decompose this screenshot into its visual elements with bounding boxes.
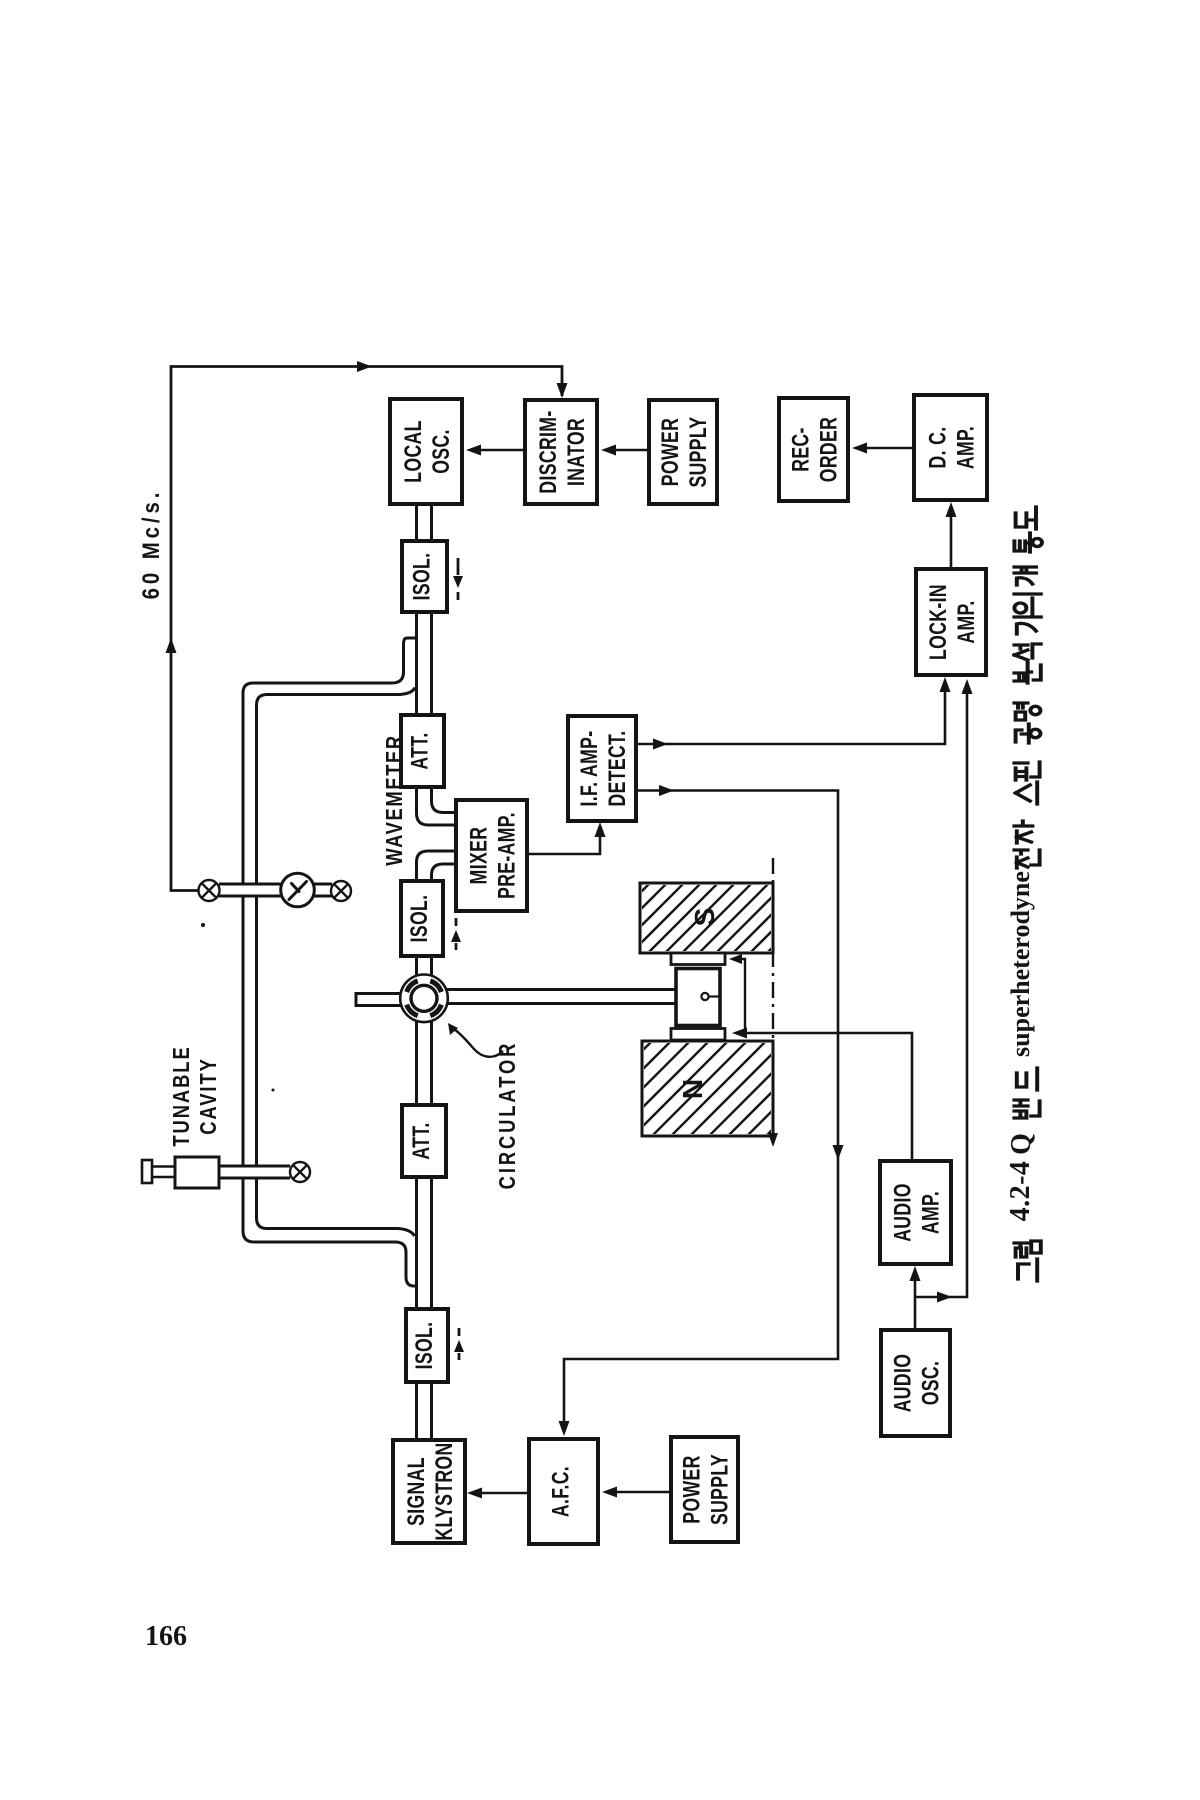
svg-text:MIXER: MIXER [465,827,493,885]
svg-text:D. C.: D. C. [924,427,952,469]
svg-text:CAVITY: CAVITY [196,1057,221,1135]
component: magnet pole S (hatched block) [640,883,773,953]
svg-text:4.2-4: 4.2-4 [1005,1161,1036,1222]
svg-text:PRE-AMP.: PRE-AMP. [493,812,521,899]
wire: AUDIO AMP. to modulation coils [736,1033,912,1160]
svg-text:ATT.: ATT. [407,1122,435,1159]
svg-text:ATT.: ATT. [406,732,434,769]
svg-text:AMP.: AMP. [952,600,980,643]
svg-text:DETECT.: DETECT. [603,731,631,807]
svg-text:A.F.C.: A.F.C. [547,1466,575,1517]
wire: static field axis (dash-dot) with arrow [772,858,774,1142]
wire: AUDIO OSC. to AUDIO AMP. [914,1272,917,1329]
wire: I.F. output to A.F.C. [564,791,838,1433]
svg-text:KLYSTRON: KLYSTRON [430,1442,458,1540]
wire: circulator left stub port [356,992,401,995]
detector: crystal detector (tunable cavity) [290,1162,310,1182]
node: wavemeter cross arm (white break over vertical guide) [219,885,282,895]
wire: waveguide ATT to MIXER PRE-AMP [417,786,458,825]
block: RECORDER [779,398,848,501]
component: resonant cavity with sample [676,969,720,1026]
svg-text:TUNABLE: TUNABLE [169,1045,194,1146]
wire: AUDIO OSC. reference to LOCK-IN AMP. [915,683,967,1297]
wire: I.F. output to LOCK-IN AMP. [637,681,945,744]
svg-text:AUDIO: AUDIO [889,1183,917,1242]
node: tunable cavity arm (white break over vertical guide) [219,1167,290,1177]
svg-text:60 Mc/s.: 60 Mc/s. [137,489,164,600]
wire: LOCK-IN AMP. to D.C. AMP. [950,506,953,568]
component: magnet pole cap (S side) [671,953,725,965]
svg-text:OSC.: OSC. [427,429,455,474]
svg-text:POWER: POWER [656,418,684,486]
wire: waveguide ISOL to SIGNAL KLYSTRON [415,1381,418,1441]
block: MIXER PRE-AMP. [456,800,527,911]
block: LOCK-IN AMP. [916,569,986,675]
svg-text:DISCRIM-: DISCRIM- [534,410,562,493]
svg-text:ISOL.: ISOL. [408,553,436,601]
svg-text:REC-: REC- [787,427,815,472]
svg-text:166: 166 [145,1621,187,1652]
node: isolator direction arrow (klystron arm) [458,1328,461,1336]
wire: waveguide ISOL(mixer) to MIXER PRE-AMP [417,851,458,882]
component: magnet pole cap (N side) [671,1029,725,1041]
svg-text:LOCK-IN: LOCK-IN [924,584,952,660]
svg-text:S: S [689,908,720,927]
svg-text:I.F. AMP-: I.F. AMP- [575,730,603,806]
node: isolator direction arrow (local osc arm) [457,558,460,575]
block: SIGNAL KLYSTRON [393,1440,465,1543]
wire: 60 Mc/s reference (detector to discriminator) [171,367,562,891]
wire: DISCRIMINATOR to LOCAL OSC. [470,449,524,452]
svg-text:Q: Q [1006,1133,1037,1155]
svg-text:CIRCULATOR: CIRCULATOR [495,1041,520,1190]
svg-text:AMP.: AMP. [917,1191,945,1234]
block: ISOL. (mixer arm) [401,881,443,956]
svg-text:SIGNAL: SIGNAL [402,1457,430,1526]
block: AUDIO OSC. [881,1330,950,1436]
component: magnet pole N (hatched block) [642,1041,773,1136]
svg-text:POWER: POWER [678,1455,706,1523]
wire: MIXER PRE-AMP. to I.F. AMP-DETECT. [528,826,600,854]
node: isolator direction arrow (mixer arm) [455,918,458,926]
svg-text:LOCAL: LOCAL [399,420,427,483]
wire: waveguide circulator to resonant cavity [447,988,677,991]
wire: waveguide ISOL to ATT (local osc arm) [415,611,418,716]
component: tunable cavity box [175,1157,219,1188]
svg-text:superheterodyne: superheterodyne [1006,871,1035,1057]
block: ATT. (klystron arm) [402,1105,446,1177]
svg-text:OSC.: OSC. [917,1361,945,1406]
block: ISOL. (klystron arm) [406,1309,448,1382]
block: LOCAL OSC. [390,399,462,504]
label: figure caption (rotated Korean) [1018,1259,1037,1281]
block: D.C. AMP. [914,395,987,500]
svg-text:AMP.: AMP. [952,426,980,469]
svg-text:SUPPLY: SUPPLY [684,416,712,487]
component: circulator (4-port) [400,975,448,1023]
svg-text:SUPPLY: SUPPLY [706,1454,734,1525]
wire: waveguide branch to wavemeter/tunable cavity (outer stroke) [243,638,417,1286]
wire: waveguide circulator to ISOL(mixer) [415,955,418,976]
block: POWER SUPPLY (discriminator) [649,400,717,504]
block: POWER SUPPLY (A.F.C.) [671,1437,738,1542]
detector: crystal detector (wavemeter left) [199,880,220,901]
wire: waveguide circulator to ATT (klystron arm) [415,1021,418,1106]
wire: POWER SUPPLY to A.F.C. [606,1491,670,1494]
block: ISOL. (local osc arm) [402,541,447,612]
block: I.F. AMP-DETECT. [568,716,636,821]
block: A.F.C. [529,1439,598,1544]
svg-text:ISOL.: ISOL. [405,895,433,943]
component: tunable cavity plunger [152,1165,175,1168]
wire: waveguide branch to wavemeter/tunable cavity (inner stroke) [257,688,416,1237]
svg-text:N: N [677,1079,708,1099]
svg-text:ORDER: ORDER [815,417,843,482]
node: stray scan speck [201,923,205,927]
component: wavemeter cavity (lambda meter) [281,873,315,907]
svg-text:AUDIO: AUDIO [889,1354,917,1413]
wire: D.C. AMP. to RECORDER [856,447,913,450]
wire: POWER SUPPLY to DISCRIMINATOR [605,449,648,452]
label: CIRCULATOR with pointer [454,1029,503,1057]
block: ATT. (local osc arm) [401,715,444,787]
svg-text:ISOL.: ISOL. [410,1322,438,1370]
wire: waveguide LOCAL OSC to ISOL (top) [415,503,418,542]
block: AUDIO AMP. [880,1161,951,1264]
detector: crystal detector (wavemeter right) [331,881,351,901]
wire: waveguide ATT to ISOL (klystron) [415,1176,418,1310]
svg-text:INATOR: INATOR [562,418,590,486]
block: DISCRIMINATOR [525,400,597,504]
wire: modulation to upper pole cap [733,959,745,1033]
wire: A.F.C. to SIGNAL KLYSTRON [471,1492,528,1495]
